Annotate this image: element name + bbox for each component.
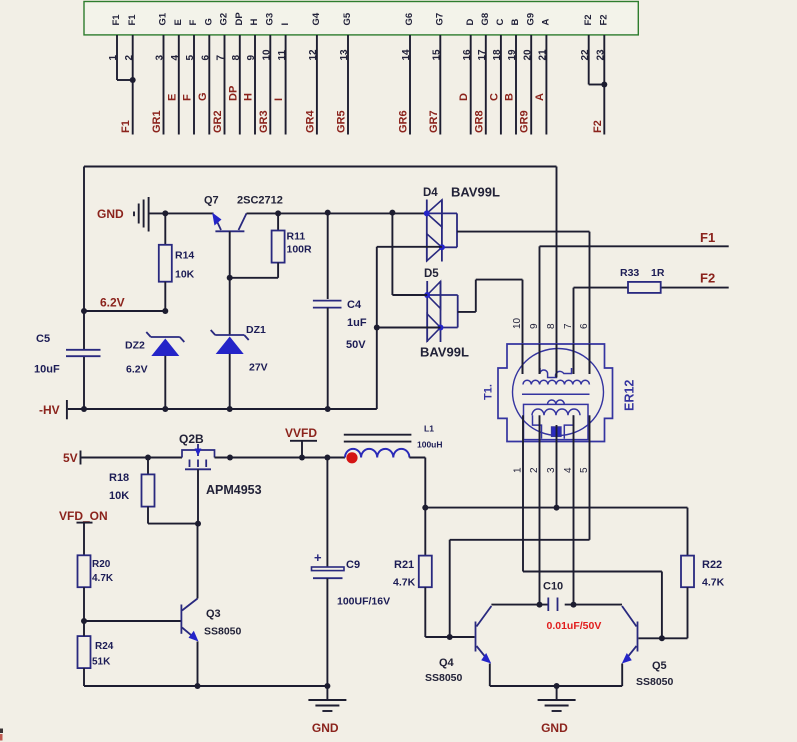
svg-text:VVFD: VVFD: [285, 426, 317, 440]
svg-text:I: I: [273, 98, 285, 101]
svg-text:R21: R21: [394, 559, 414, 571]
svg-text:GND: GND: [541, 721, 568, 735]
svg-text:6.2V: 6.2V: [100, 296, 125, 310]
svg-text:L1: L1: [424, 424, 434, 434]
svg-text:VFD_ON: VFD_ON: [59, 509, 108, 523]
svg-text:GND: GND: [312, 721, 339, 735]
svg-text:GR2: GR2: [212, 110, 224, 133]
svg-text:+: +: [314, 550, 322, 565]
svg-text:GR3: GR3: [258, 110, 270, 133]
svg-text:SS8050: SS8050: [636, 676, 674, 688]
svg-text:R14: R14: [175, 250, 194, 262]
svg-text:F1: F1: [120, 120, 132, 133]
svg-text:GR1: GR1: [151, 110, 163, 133]
svg-text:D5: D5: [424, 268, 439, 280]
svg-text:G8: G8: [480, 13, 491, 26]
svg-text:5V: 5V: [63, 451, 78, 465]
svg-text:APM4953: APM4953: [206, 483, 262, 497]
svg-text:G5: G5: [342, 12, 353, 25]
svg-text:8: 8: [546, 323, 557, 329]
svg-text:B: B: [510, 19, 521, 26]
svg-text:100R: 100R: [287, 244, 313, 256]
svg-text:H: H: [249, 19, 260, 26]
svg-text:0.01uF/50V: 0.01uF/50V: [547, 620, 602, 632]
svg-text:H: H: [243, 93, 255, 101]
svg-text:5: 5: [579, 467, 590, 473]
svg-text:B: B: [504, 93, 516, 101]
svg-text:Q4: Q4: [439, 657, 455, 669]
svg-text:GR5: GR5: [336, 110, 348, 133]
svg-text:GR7: GR7: [428, 110, 440, 133]
svg-text:C: C: [495, 19, 506, 26]
svg-text:DP: DP: [227, 86, 239, 101]
svg-text:G3: G3: [265, 13, 276, 26]
svg-text:C5: C5: [36, 333, 50, 345]
svg-text:F2: F2: [592, 120, 604, 133]
svg-text:F2: F2: [599, 14, 610, 25]
svg-text:G: G: [197, 92, 209, 101]
svg-text:6.2V: 6.2V: [126, 364, 148, 376]
svg-text:SS8050: SS8050: [204, 626, 242, 638]
svg-text:10K: 10K: [109, 490, 129, 502]
svg-text:100uH: 100uH: [417, 440, 443, 450]
svg-text:1uF: 1uF: [347, 317, 367, 329]
svg-text:G6: G6: [404, 13, 415, 26]
svg-text:6: 6: [579, 323, 590, 329]
svg-text:D: D: [465, 19, 476, 26]
svg-text:GR9: GR9: [519, 110, 531, 133]
svg-text:GR6: GR6: [398, 110, 410, 133]
svg-text:7: 7: [563, 323, 574, 329]
svg-text:C: C: [488, 93, 500, 101]
svg-text:10uF: 10uF: [34, 364, 60, 376]
svg-text:4.7K: 4.7K: [393, 577, 416, 589]
svg-text:G4: G4: [311, 12, 322, 25]
svg-text:E: E: [173, 19, 184, 25]
svg-text:G7: G7: [435, 13, 446, 26]
svg-text:50V: 50V: [346, 339, 366, 351]
svg-text:9: 9: [529, 323, 540, 329]
svg-text:F1: F1: [127, 14, 138, 26]
svg-text:F1: F1: [111, 14, 122, 26]
svg-text:D4: D4: [423, 187, 438, 199]
svg-text:DZ1: DZ1: [246, 324, 266, 336]
svg-text:C9: C9: [346, 559, 360, 571]
svg-text:C10: C10: [543, 581, 563, 593]
svg-text:10: 10: [512, 317, 523, 329]
svg-text:Q7: Q7: [204, 195, 219, 207]
svg-text:A: A: [541, 19, 552, 26]
svg-text:4.7K: 4.7K: [92, 573, 114, 584]
svg-text:R20: R20: [92, 559, 111, 570]
svg-text:100UF/16V: 100UF/16V: [337, 596, 390, 608]
svg-text:A: A: [534, 93, 546, 101]
svg-text:10K: 10K: [175, 269, 195, 281]
svg-text:I: I: [280, 23, 291, 26]
svg-text:DP: DP: [234, 12, 245, 26]
svg-text:4: 4: [563, 467, 574, 473]
svg-text:F: F: [188, 20, 199, 26]
svg-text:F2: F2: [583, 14, 594, 25]
svg-text:51K: 51K: [92, 657, 111, 668]
svg-text:BAV99L: BAV99L: [420, 345, 469, 360]
svg-text:C4: C4: [347, 299, 362, 311]
svg-text:R24: R24: [95, 641, 114, 652]
svg-text:27V: 27V: [249, 362, 268, 374]
svg-text:ER12: ER12: [623, 380, 637, 411]
svg-text:SS8050: SS8050: [425, 672, 463, 684]
svg-text:Q5: Q5: [652, 660, 667, 672]
svg-text:1: 1: [513, 467, 524, 473]
svg-text:1R: 1R: [651, 267, 665, 279]
svg-text:D: D: [458, 93, 470, 101]
svg-text:R22: R22: [702, 559, 722, 571]
svg-text:R18: R18: [109, 472, 129, 484]
svg-text:F1: F1: [700, 230, 715, 245]
svg-text:3: 3: [546, 467, 557, 473]
svg-text:GR8: GR8: [473, 110, 485, 133]
svg-text:4.7K: 4.7K: [702, 577, 725, 589]
svg-text:G9: G9: [525, 13, 536, 26]
svg-text:R33: R33: [620, 267, 639, 279]
svg-text:GR4: GR4: [304, 110, 316, 134]
svg-text:G: G: [204, 18, 215, 25]
svg-text:Q2B: Q2B: [179, 432, 204, 446]
svg-text:E: E: [166, 94, 178, 101]
svg-text:GND: GND: [97, 207, 124, 221]
svg-text:BAV99L: BAV99L: [451, 185, 500, 200]
svg-text:R11: R11: [287, 231, 306, 243]
svg-text:DZ2: DZ2: [125, 340, 145, 352]
svg-text:G1: G1: [158, 12, 169, 25]
svg-text:T1.: T1.: [483, 384, 495, 400]
svg-text:2SC2712: 2SC2712: [237, 195, 283, 207]
svg-text:2: 2: [529, 467, 540, 473]
svg-text:Q3: Q3: [206, 608, 221, 620]
svg-text:F: F: [182, 94, 194, 101]
svg-text:G2: G2: [219, 13, 230, 26]
svg-text:F2: F2: [700, 271, 715, 286]
svg-text:-HV: -HV: [39, 403, 60, 417]
